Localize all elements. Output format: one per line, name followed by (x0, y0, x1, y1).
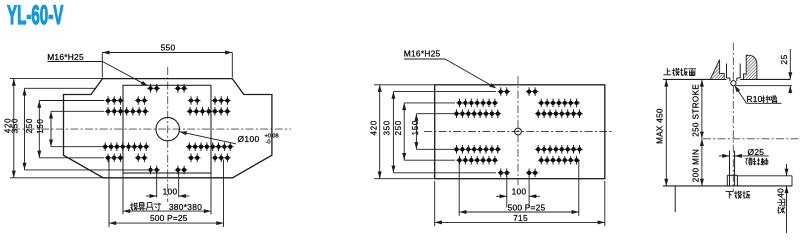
stroke position dash-dot line (703, 138, 800, 140)
svg-text:M16*H25: M16*H25 (47, 52, 84, 62)
svg-text:100: 100 (163, 187, 178, 197)
svg-text:715: 715 (513, 213, 528, 223)
svg-text:R10: R10 (747, 94, 763, 104)
dimension D25 ejector pin (719, 155, 730, 157)
dimension 420 (left) (13, 79, 15, 178)
ejector pin boss in lower platen (726, 175, 728, 186)
svg-text:+0.08: +0.08 (265, 133, 279, 139)
hatched block right of nozzle (rounded rib) (744, 55, 757, 79)
dimension MAX 450 (665, 79, 667, 185)
nozzle ball tip R10 (731, 81, 736, 86)
mold area square 380x380 (123, 85, 211, 173)
hole group lower-left rows (102, 142, 109, 151)
middle hole group upper-left (456, 99, 463, 108)
dimension 100 (left bottom) (156, 172, 158, 198)
svg-text:350: 350 (10, 118, 19, 133)
section vertical centerline (732, 43, 734, 193)
dimension mold size 380*380 (122, 173, 124, 214)
top platen surface line (663, 78, 727, 80)
middle platen rectangle (435, 85, 605, 179)
svg-text:250: 250 (394, 120, 403, 135)
svg-text:380*380: 380*380 (169, 202, 202, 212)
dimension 150 (left) (50, 111, 52, 146)
svg-text:Ø100: Ø100 (238, 134, 260, 144)
middle center locating hole (515, 128, 522, 135)
svg-text:MAX 450: MAX 450 (655, 108, 664, 144)
svg-text:500 P=25: 500 P=25 (508, 202, 546, 212)
lower platen surface line (663, 185, 792, 187)
label lower platen (726, 192, 734, 199)
svg-text:250 STROKE: 250 STROKE (692, 84, 701, 137)
leader and label D100 with tolerance (180, 132, 237, 144)
title YL-60-V (7, 0, 64, 30)
dimension 350 (left) (24, 88, 26, 170)
dimension 100 (middle) (506, 177, 508, 208)
dimension 350 (middle) (392, 92, 394, 173)
hole group lower-right rows (186, 142, 193, 151)
middle hole group lower-right (535, 145, 542, 154)
middle top edge pairs (498, 87, 505, 96)
dimension 200 MIN (701, 139, 703, 186)
right corner connector (791, 176, 793, 186)
lower platen left drop line (674, 186, 676, 212)
dimension 715 (434, 181, 436, 226)
hole group upper-left rows (105, 96, 112, 105)
nozzle / sprue bushing (726, 64, 728, 79)
hole group upper-right rows (188, 96, 195, 105)
pin top reference line (737, 175, 792, 177)
ejector pin (729, 151, 731, 186)
svg-text:25: 25 (779, 54, 789, 64)
svg-text:150: 150 (36, 118, 45, 133)
left view vertical centerline (167, 67, 169, 202)
svg-text:550: 550 (161, 42, 176, 52)
middle view horizontal centerline (424, 131, 612, 133)
svg-text:250: 250 (25, 118, 34, 133)
middle hole group upper-right (538, 99, 545, 108)
dimension 40 protrusion (786, 164, 788, 176)
top edge hole pairs (147, 84, 154, 93)
svg-text:500 P=25: 500 P=25 (150, 213, 188, 223)
svg-text:40: 40 (777, 188, 786, 198)
left view horizontal centerline (12, 128, 291, 130)
bottom edge hole pairs (147, 166, 154, 175)
svg-text:100: 100 (512, 187, 527, 197)
dimension 250 (left) (38, 101, 40, 158)
svg-text:-0: -0 (266, 140, 271, 146)
svg-text:420: 420 (370, 120, 379, 135)
dimension 150 (middle) (415, 114, 417, 150)
svg-text:Ø25: Ø25 (748, 147, 765, 157)
svg-text:M16*H25: M16*H25 (404, 49, 441, 59)
dimension 500 P=25 (left) (108, 160, 110, 228)
svg-text:200 MIN: 200 MIN (692, 149, 701, 182)
dimension 250 (middle) (403, 103, 405, 160)
center hole circle D100 (156, 117, 179, 140)
dimension 25 (789, 49, 791, 79)
nozzle seat lower line (25 below surface) (736, 85, 792, 87)
platen outline (octagonal moving platen) (64, 79, 272, 178)
middle view vertical centerline (517, 76, 519, 185)
svg-text:350: 350 (382, 120, 391, 135)
hatched block left of nozzle (triangular rib) (710, 60, 724, 80)
svg-text:YL-60-V: YL-60-V (7, 0, 64, 30)
svg-text:150: 150 (411, 120, 420, 135)
label R10 nozzle with leader (734, 85, 746, 103)
label upper platen surface (664, 68, 672, 75)
dimension 500 P=25 (middle) (458, 161, 460, 216)
middle bottom edge pairs (498, 169, 505, 178)
dimension 550 (102, 52, 232, 54)
dimension 250 STROKE (701, 79, 703, 138)
middle hole group lower-left (453, 145, 460, 154)
dimension 420 (middle) (379, 85, 381, 179)
